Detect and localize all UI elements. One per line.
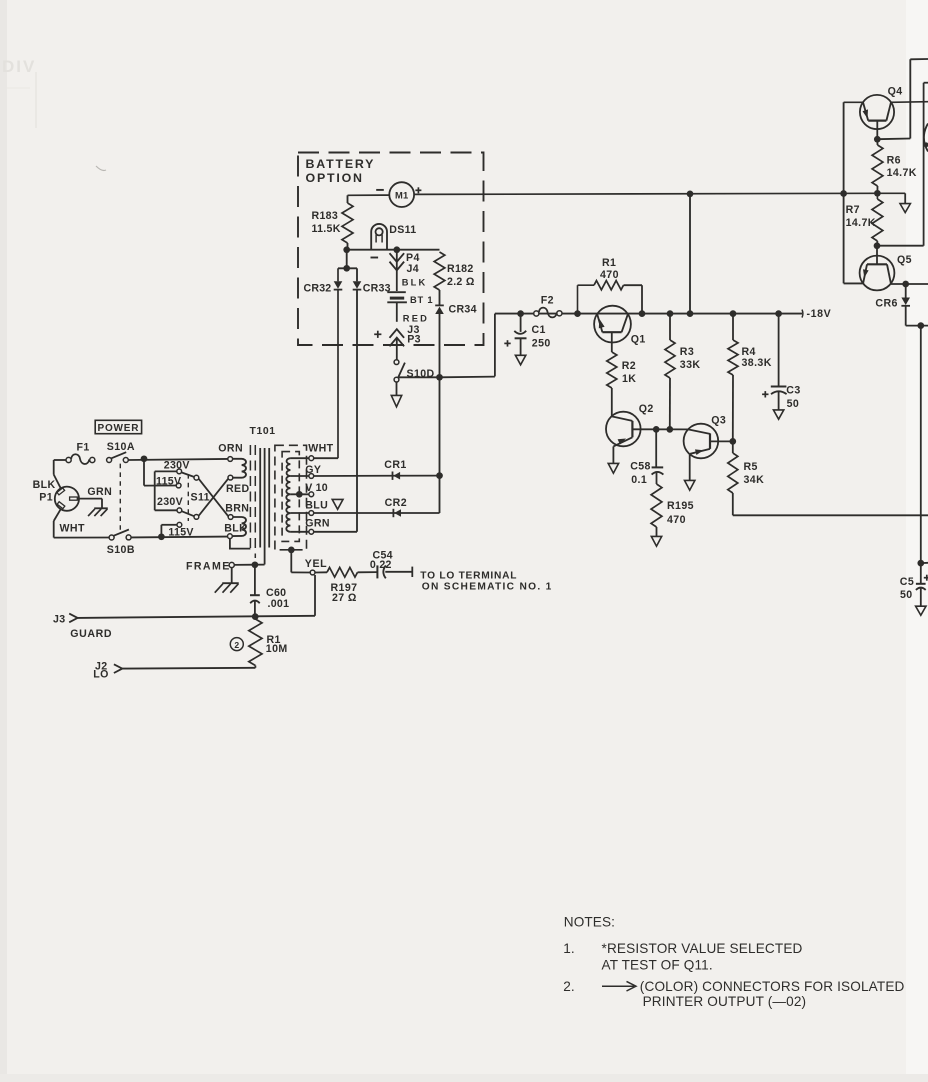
- svg-text:R7: R7: [846, 204, 860, 216]
- svg-text:RED: RED: [403, 313, 429, 323]
- svg-text:F2: F2: [541, 295, 554, 307]
- svg-text:2: 2: [234, 640, 239, 650]
- svg-text:J4: J4: [407, 263, 420, 275]
- svg-text:S10A: S10A: [107, 441, 135, 453]
- svg-text:*RESISTOR VALUE SELECTED: *RESISTOR VALUE SELECTED: [602, 941, 803, 956]
- svg-text:LO: LO: [93, 669, 109, 681]
- svg-text:115V: 115V: [168, 526, 193, 538]
- svg-text:BATTERY: BATTERY: [306, 157, 376, 171]
- svg-text:S10B: S10B: [107, 544, 135, 556]
- svg-text:CR32: CR32: [304, 283, 332, 295]
- svg-text:R3: R3: [680, 346, 694, 358]
- svg-text:OPTION: OPTION: [306, 171, 364, 185]
- svg-text:R5: R5: [744, 461, 758, 473]
- svg-text:NOTES:: NOTES:: [564, 914, 615, 929]
- svg-text:2.: 2.: [563, 979, 575, 994]
- svg-text:50: 50: [900, 589, 913, 601]
- svg-text:(COLOR) CONNECTORS FOR ISOLATE: (COLOR) CONNECTORS FOR ISOLATED: [640, 979, 905, 994]
- svg-text:Q4: Q4: [888, 85, 903, 97]
- svg-text:CR2: CR2: [385, 497, 407, 509]
- svg-text:250: 250: [532, 337, 551, 349]
- svg-text:0.1: 0.1: [631, 474, 647, 486]
- svg-text:50: 50: [787, 398, 800, 410]
- svg-text:14.7K: 14.7K: [887, 167, 917, 179]
- svg-text:1K: 1K: [622, 373, 636, 385]
- svg-text:GRN: GRN: [305, 517, 330, 529]
- svg-text:BLU: BLU: [305, 499, 328, 511]
- svg-text:S10D: S10D: [407, 368, 435, 380]
- svg-text:WHT: WHT: [308, 443, 333, 455]
- svg-text:-18V: -18V: [807, 308, 832, 320]
- svg-text:Q1: Q1: [631, 333, 646, 345]
- svg-text:2.2 Ω: 2.2 Ω: [447, 276, 475, 288]
- svg-text:14.7K: 14.7K: [846, 217, 876, 229]
- svg-text:GY: GY: [305, 464, 321, 476]
- svg-text:C58: C58: [630, 460, 651, 472]
- svg-text:R195: R195: [667, 500, 694, 512]
- svg-text:ORN: ORN: [218, 443, 243, 455]
- svg-text:M1: M1: [395, 190, 408, 201]
- svg-text:R182: R182: [447, 263, 474, 275]
- svg-text:R4: R4: [742, 346, 756, 358]
- svg-text:P3: P3: [407, 334, 421, 346]
- svg-text:S11: S11: [191, 492, 210, 504]
- svg-text:38.3K: 38.3K: [742, 357, 772, 369]
- svg-text:230V: 230V: [164, 460, 190, 472]
- svg-text:11.5K: 11.5K: [312, 223, 341, 235]
- svg-text:DIV: DIV: [2, 57, 36, 76]
- svg-text:ON SCHEMATIC NO. 1: ON SCHEMATIC NO. 1: [422, 581, 553, 592]
- svg-text:R6: R6: [887, 155, 901, 167]
- svg-text:BLK: BLK: [402, 277, 428, 287]
- svg-text:CR34: CR34: [449, 304, 477, 316]
- svg-text:GUARD: GUARD: [70, 628, 112, 640]
- svg-text:GRN: GRN: [87, 486, 112, 498]
- svg-text:BRN: BRN: [225, 503, 249, 515]
- svg-text:115V: 115V: [156, 475, 181, 487]
- svg-text:R183: R183: [312, 210, 339, 222]
- svg-text:AT TEST OF Q11.: AT TEST OF Q11.: [602, 957, 713, 972]
- svg-text:230V: 230V: [157, 496, 183, 508]
- svg-text:CR6: CR6: [875, 298, 897, 310]
- svg-text:V 10: V 10: [305, 482, 328, 494]
- svg-text:470: 470: [600, 269, 619, 281]
- svg-text:C1: C1: [532, 324, 546, 336]
- svg-text:F1: F1: [77, 442, 90, 454]
- svg-text:J3: J3: [53, 614, 66, 626]
- svg-text:27 Ω: 27 Ω: [332, 592, 357, 604]
- svg-text:BT 1: BT 1: [410, 295, 433, 305]
- svg-text:DS11: DS11: [389, 224, 416, 236]
- svg-text:BLK: BLK: [33, 479, 56, 491]
- svg-text:TO LO TERMINAL: TO LO TERMINAL: [420, 571, 517, 582]
- svg-text:RED: RED: [226, 483, 250, 495]
- svg-text:CR33: CR33: [363, 282, 391, 294]
- svg-text:0.22: 0.22: [370, 559, 392, 571]
- svg-text:33K: 33K: [680, 359, 701, 371]
- svg-text:WHT: WHT: [60, 523, 85, 535]
- svg-text:PRINTER OUTPUT (—02): PRINTER OUTPUT (—02): [643, 994, 807, 1009]
- svg-text:P4: P4: [406, 252, 420, 264]
- svg-text:Q5: Q5: [897, 254, 912, 266]
- svg-text:C5: C5: [900, 576, 914, 588]
- svg-text:FRAME: FRAME: [186, 560, 231, 572]
- svg-text:34K: 34K: [744, 474, 765, 486]
- svg-text:Q3: Q3: [711, 414, 726, 426]
- svg-text:R2: R2: [622, 360, 636, 372]
- svg-text:470: 470: [667, 514, 686, 526]
- svg-text:R1: R1: [602, 257, 616, 269]
- svg-text:T101: T101: [250, 426, 276, 437]
- svg-text:C3: C3: [786, 385, 800, 397]
- svg-text:1.: 1.: [563, 941, 575, 956]
- svg-text:Q2: Q2: [639, 403, 654, 415]
- svg-text:YEL: YEL: [305, 558, 327, 570]
- svg-text:POWER: POWER: [98, 423, 140, 434]
- svg-text:CR1: CR1: [384, 459, 406, 471]
- svg-text:P1: P1: [39, 492, 53, 504]
- svg-text:10M: 10M: [266, 643, 288, 655]
- svg-text:.001: .001: [268, 598, 290, 610]
